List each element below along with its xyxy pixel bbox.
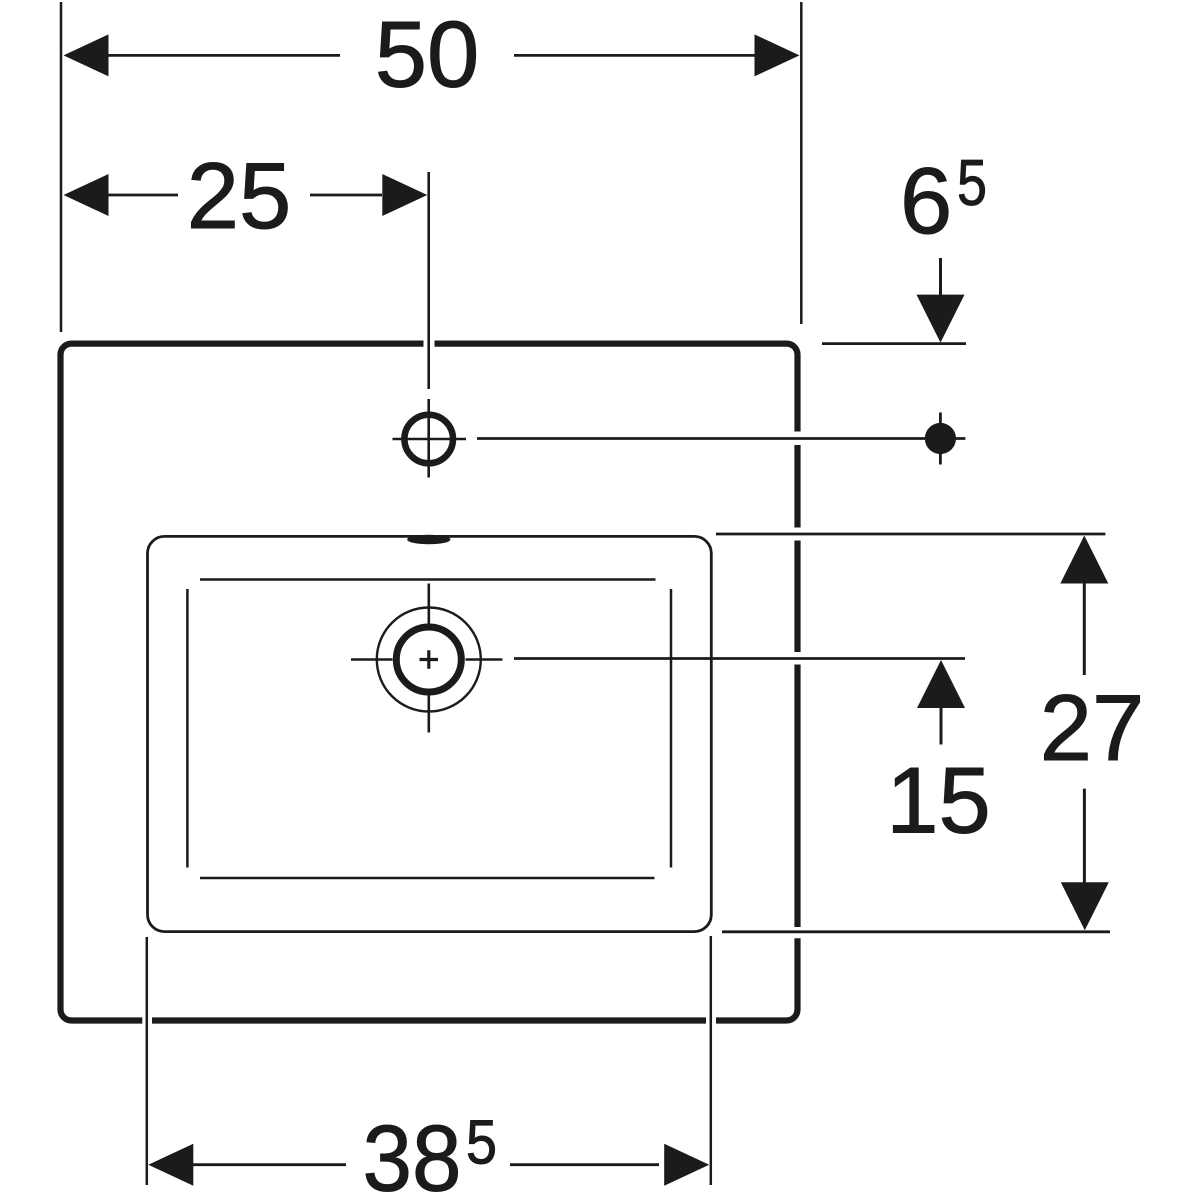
svg-text:5: 5: [957, 146, 987, 219]
dim 27 stem bottom: [1083, 789, 1086, 884]
svg-text:5: 5: [466, 1109, 497, 1178]
dim 6.5 arrow down: [917, 295, 965, 343]
dim 38.5 arrow right: [664, 1144, 709, 1186]
wall fixing dot: [925, 423, 956, 454]
dim 50 line: [107, 54, 757, 57]
dim 15 arrow up: [917, 660, 965, 708]
faucet hole crosshair vertical: [427, 399, 430, 478]
dim 38.5 extension line right: [710, 936, 713, 1185]
basin inner edge bottom: [200, 877, 655, 880]
dim 38.5 extension line left: [146, 937, 149, 1185]
dim 27 arrow down: [1061, 882, 1109, 930]
basin inner edge left: [186, 589, 189, 868]
svg-text:6: 6: [900, 148, 952, 253]
washbasin outer outline: [61, 344, 798, 1021]
basin inner edge right: [670, 589, 673, 868]
dim 38.5 line: [193, 1163, 659, 1166]
dim 50 arrow right: [755, 34, 800, 76]
dim 25 arrow left: [64, 174, 109, 216]
drain crosshair horizontal left: [351, 658, 393, 661]
drain thick ring: [396, 627, 461, 692]
drain crosshair vertical top: [427, 584, 430, 624]
dim 6.5 stem: [939, 258, 942, 297]
dim 50 extension line right: [800, 2, 803, 324]
basin rim outline: [148, 536, 712, 931]
dim 50 arrow left: [64, 34, 109, 76]
drain reference line for 15: [514, 657, 965, 660]
basin inner edge top: [200, 578, 656, 581]
dim 6.5 reference line: [822, 342, 966, 345]
faucet hole circle: [404, 415, 453, 464]
drain center plus: [420, 650, 439, 669]
svg-text:38: 38: [363, 1106, 462, 1200]
wall dot crosshair vertical: [939, 413, 942, 465]
hole reference line to wall dot: [477, 437, 965, 440]
dim 27 extension line top: [716, 533, 1105, 536]
svg-text:25: 25: [187, 143, 292, 248]
svg-text:15: 15: [886, 748, 991, 853]
svg-text:50: 50: [375, 2, 480, 107]
drain crosshair horizontal right: [466, 658, 503, 661]
dim 27 arrow up: [1060, 536, 1108, 584]
faucet hole crosshair horizontal: [393, 438, 467, 441]
dim 38.5 arrow left: [148, 1144, 193, 1186]
overflow slot: [407, 535, 450, 545]
dim 27 extension line bottom: [722, 930, 1110, 933]
dim 27 stem top: [1083, 581, 1086, 675]
svg-text:27: 27: [1040, 675, 1145, 780]
dim 25 arrow right: [382, 174, 427, 216]
dim 50 extension line left: [60, 2, 63, 332]
drain outer circle: [377, 608, 481, 712]
dim 25 line: [107, 194, 382, 197]
dim 15 stem: [940, 707, 943, 745]
drain crosshair vertical bottom: [427, 694, 430, 733]
faucet centerline above: [427, 172, 430, 389]
